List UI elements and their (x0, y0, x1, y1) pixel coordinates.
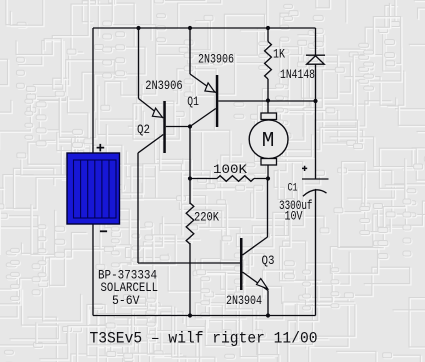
svg-text:5-6V: 5-6V (112, 294, 140, 308)
svg-text:100K: 100K (213, 163, 248, 177)
svg-text:SOLARCELL: SOLARCELL (101, 281, 159, 295)
resistor R2 100K (190, 163, 268, 181)
wire: Q2 collector drop (137, 153, 139, 263)
resistor R3 220K (186, 179, 219, 316)
junction: 220K to ground rail (188, 313, 192, 317)
junction: 100K right node / motor minus / Q3 collector (266, 176, 270, 180)
wire: bottom ground rail (93, 315, 316, 317)
svg-text:2N3906: 2N3906 (145, 79, 183, 93)
wire: node A down to 100K node (189, 127, 191, 179)
svg-text:1K: 1K (273, 48, 285, 62)
svg-text:220K: 220K (194, 211, 219, 225)
wire: node down to capacitor C1 (315, 101, 317, 179)
wire: Q2 emitter drop (138, 28, 140, 99)
wire: top supply rail (93, 27, 316, 29)
resistor R1 1K (265, 28, 286, 101)
svg-text:2N3906: 2N3906 (198, 53, 234, 67)
wire: right rail from top to diode anode (315, 28, 317, 55)
junction: Q3 emitter to ground rail (266, 313, 270, 317)
wire: capacitor to bottom rail (315, 189, 317, 316)
svg-text:T3SEv5 – wilf rigter 11/00: T3SEv5 – wilf rigter 11/00 (90, 330, 318, 348)
junction: 100K left node (188, 176, 192, 180)
junction: base rail meets diode branch (313, 99, 317, 103)
svg-text:10V: 10V (285, 210, 303, 224)
wire: Q3 emitter drop to ground rail (267, 291, 269, 316)
junction: top rail / Q2 emitter branch (136, 26, 140, 30)
title: T3SEv5 - wilf rigter 11/00 (90, 330, 318, 348)
svg-text:M: M (262, 130, 275, 153)
junction: top rail / 1K branch (266, 26, 270, 30)
wire: Q1 emitter drop (189, 28, 191, 74)
capacitor C1 3300uf 10V (279, 166, 329, 224)
junction: 1K / motor plus / Q1 base rail (266, 98, 270, 102)
solar cell PV1 BP-373334 (67, 144, 158, 308)
junction: top rail / Q1 emitter branch (188, 26, 192, 30)
diode D1 1N4148 (280, 55, 325, 82)
wire: diode cathode down to base-rail node (315, 64, 317, 101)
svg-text:1N4148: 1N4148 (280, 68, 315, 82)
transistor Q3 2N3904 (226, 237, 275, 308)
svg-text:Q1: Q1 (187, 95, 199, 109)
svg-text:Q2: Q2 (137, 123, 150, 137)
junction: node A (Q1 collector / Q2 base / 220K) (188, 124, 192, 128)
svg-text:2N3904: 2N3904 (226, 294, 262, 308)
transistor Q2 2N3906 (137, 79, 190, 153)
transistor Q1 2N3906 (187, 53, 315, 128)
motor M1 (249, 101, 288, 179)
wire: left rail through solar cell (92, 28, 94, 316)
svg-text:Q3: Q3 (262, 254, 275, 268)
wire: Q3 collector riser (267, 179, 269, 238)
svg-text:C1: C1 (288, 183, 298, 195)
wire: Q2 collector to Q3 base (138, 262, 240, 264)
